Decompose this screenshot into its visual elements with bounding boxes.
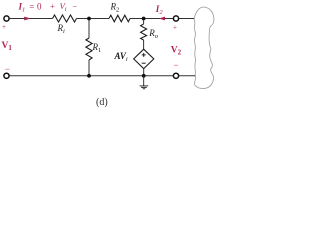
svg-text:R1: R1 [92,42,102,54]
svg-text:Ro: Ro [148,28,159,40]
wire: R1 branch vertical [88,19,90,39]
arrow: current I1 (points right) [24,17,31,21]
resistor R2 (horizontal, top middle) [109,15,130,22]
wire: bottom stub from output terminal to blob [179,75,196,77]
external network blob [194,7,214,88]
svg-text:V1: V1 [2,41,13,52]
wire: bottom rail [9,75,173,77]
wire: top rail right of Ri [77,18,110,20]
minus sign inside source [142,62,146,64]
svg-text:+: + [2,23,6,31]
wire: source to bottom rail [143,69,145,76]
terminal: output top [173,16,178,21]
plus sign inside source [142,53,146,57]
terminal: input top [4,16,9,21]
node: bottom right junction [142,74,146,78]
arrow: current I2 (points left) [159,17,165,21]
wire: top rail right of R2 [130,18,173,20]
resistor R1 (vertical) [86,38,92,60]
node: top left junction [87,17,91,21]
svg-text:(d): (d) [96,97,108,108]
node: top right junction [142,17,146,21]
svg-text:−: − [174,60,179,70]
svg-text:+Vi−: +Vi− [50,1,77,13]
svg-text:R2: R2 [110,2,120,14]
wire: Ro to dependent source [143,40,145,49]
dependent source AVi (diamond) [134,49,154,68]
wire: top rail from input terminal to output terminal [9,18,52,20]
ground [140,76,149,89]
resistor Ri (horizontal, top left) [53,15,77,22]
terminal: output bottom [173,73,178,78]
svg-text:V2: V2 [171,46,182,57]
resistor Ro (vertical) [141,24,147,40]
svg-text:I1=0: I1=0 [18,1,43,13]
wire: Ro branch from top rail [143,19,145,25]
wire: top stub from output terminal to blob [179,18,194,20]
terminal: input bottom [4,73,9,78]
svg-text:−: − [5,64,10,74]
svg-text:+: + [173,23,177,31]
svg-text:I2: I2 [155,4,164,16]
svg-text:AVi: AVi [114,51,128,63]
wire: R1 to bottom rail [88,60,90,76]
node: bottom left junction [87,74,91,78]
svg-text:Ri: Ri [57,23,66,35]
